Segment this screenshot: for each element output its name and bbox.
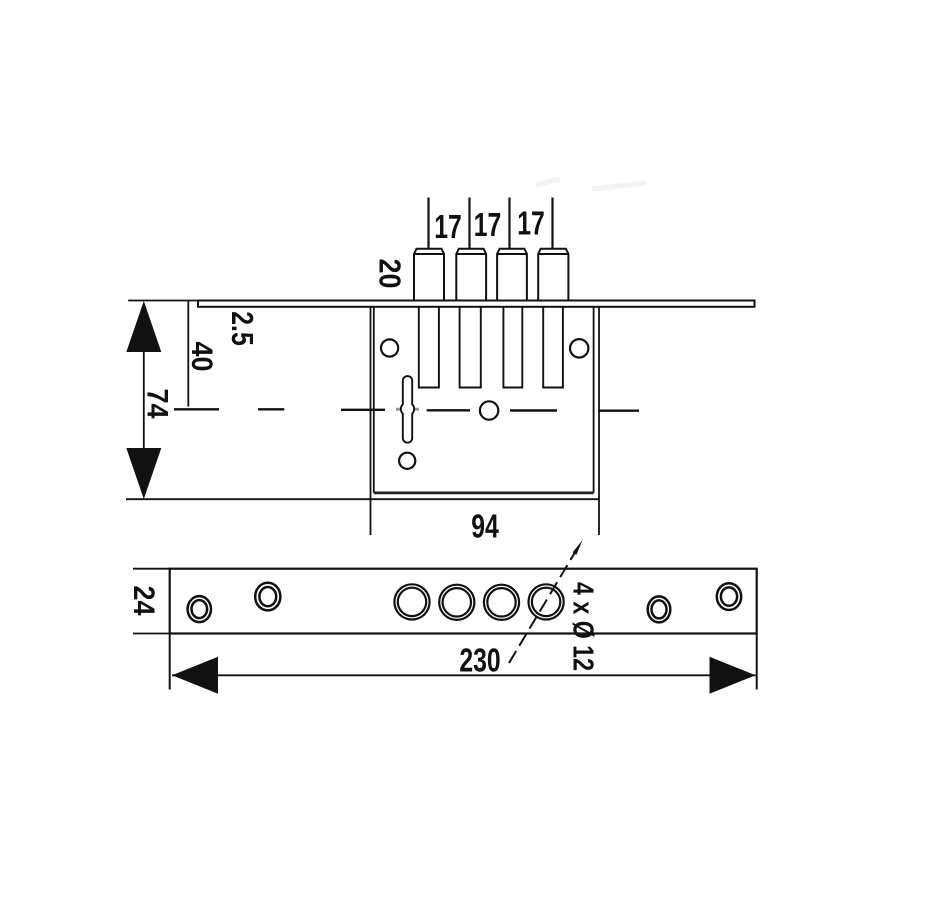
svg-text:17: 17 bbox=[517, 206, 545, 242]
extension line bolt4 bbox=[551, 198, 553, 250]
case hole top-right bbox=[570, 339, 588, 357]
extension line bolt1 bbox=[427, 198, 429, 250]
bolt slot 1 inside case bbox=[419, 307, 439, 388]
svg-text:40: 40 bbox=[185, 341, 219, 371]
bolt 4 bbox=[538, 249, 568, 301]
24 upper reference line bbox=[133, 568, 170, 570]
centerline dash stubs at keyhole bbox=[396, 408, 419, 411]
bolt slot 3 inside case bbox=[503, 307, 522, 388]
screw hole far-right bbox=[717, 583, 741, 610]
svg-text:230: 230 bbox=[459, 643, 500, 679]
230 extension line right bbox=[756, 634, 758, 690]
keyhole slot bbox=[401, 376, 414, 443]
leader arrowhead bbox=[573, 540, 583, 555]
74 lower reference line / case outer bottom bbox=[126, 498, 599, 500]
faceplate side view bbox=[198, 301, 755, 307]
case hole top-left bbox=[381, 339, 398, 356]
faceplate front view strip bbox=[170, 569, 757, 634]
svg-text:74: 74 bbox=[140, 388, 174, 418]
plate top reference line (74 upper) bbox=[128, 300, 198, 302]
lock case outer left edge / 94 extension bbox=[370, 307, 372, 535]
lock case outer right edge / 94 extension bbox=[598, 307, 600, 535]
svg-text:20: 20 bbox=[372, 259, 406, 289]
centerline dashes bbox=[174, 409, 639, 410]
svg-text:17: 17 bbox=[474, 208, 502, 244]
screw hole far-left bbox=[188, 596, 211, 622]
case inner bottom edge bbox=[374, 491, 594, 494]
74 dimension line bbox=[143, 352, 145, 448]
bolt hole 1 front bbox=[394, 584, 429, 619]
230 arrowhead left bbox=[172, 657, 218, 694]
screw hole right-inner bbox=[648, 596, 671, 622]
bolt hole 3 front bbox=[484, 585, 519, 620]
bolt hole 2 front bbox=[439, 585, 474, 620]
bolt 3 bbox=[497, 249, 527, 301]
bolt slot 4 inside case bbox=[543, 307, 563, 388]
screw hole left-inner bbox=[255, 583, 280, 611]
24 lower reference line bbox=[133, 633, 170, 635]
74 dimension arrows and line bbox=[126, 301, 161, 499]
extension line bolt3 bbox=[508, 198, 510, 250]
230 dimension line bbox=[172, 674, 756, 676]
bolt slot 2 inside case bbox=[460, 307, 481, 388]
bolt 1 bbox=[414, 249, 444, 301]
bolt hole 4 front bbox=[529, 584, 564, 619]
40 extension line bbox=[187, 301, 189, 407]
230 arrowhead right bbox=[710, 657, 756, 694]
extension line bolt2 bbox=[468, 198, 470, 250]
leader line to faceplate holes bbox=[509, 544, 580, 663]
lock case inner rectangle bbox=[374, 307, 594, 493]
svg-text:4 x Ø 12: 4 x Ø 12 bbox=[567, 582, 600, 671]
center hole of case bbox=[480, 401, 498, 419]
230 extension line left bbox=[169, 634, 171, 690]
bolt 2 bbox=[456, 249, 486, 301]
scan smudge bbox=[536, 179, 646, 189]
svg-text:17: 17 bbox=[434, 210, 462, 246]
svg-text:24: 24 bbox=[126, 585, 160, 615]
svg-text:94: 94 bbox=[471, 509, 499, 545]
svg-text:2.5: 2.5 bbox=[225, 311, 259, 345]
case hole bottom-left bbox=[399, 453, 415, 469]
